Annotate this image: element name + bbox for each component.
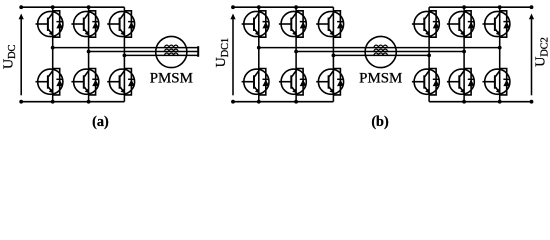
voltage arrow U_DC2 [529, 14, 534, 96]
IGBT T13 with freewheel diode [412, 11, 440, 37]
node: (b) left phase B tap [294, 50, 298, 54]
node: (a) leg1 top junction [51, 5, 55, 9]
node: (b) left phase C tap [332, 54, 336, 58]
node: (b) right leg3 top junction [498, 5, 502, 9]
IGBT T9 with freewheel diode [279, 11, 307, 37]
node: (a) phase C tap [123, 54, 127, 58]
wire: (b) right leg 3 vertical [499, 7, 501, 102]
node: (b) left leg1 bottom junction [257, 100, 261, 104]
node: (b) left phase A tap [257, 46, 261, 50]
IGBT T16 with freewheel diode [447, 69, 475, 95]
wire: (a) negative DC bus [21, 101, 124, 103]
IGBT T14 with freewheel diode [412, 69, 440, 95]
wire: (b) left leg 2 vertical [295, 7, 297, 102]
voltage arrow U_DC [19, 14, 24, 96]
node: (a) leg2 bottom junction [87, 100, 91, 104]
wire: (a) phase A [53, 47, 199, 49]
wire: (b) phase B [296, 51, 464, 53]
wire: (b) left leg 1 vertical [258, 7, 260, 102]
node: (b) right phase B tap [462, 50, 466, 54]
IGBT T12 with freewheel diode [316, 69, 344, 95]
IGBT T18 with freewheel diode [483, 69, 511, 95]
wire: (b) phase C [333, 54, 429, 56]
IGBT T3 with freewheel diode [71, 11, 99, 37]
IGBT T15 with freewheel diode [447, 11, 475, 37]
wire: (a) leg 1 vertical [52, 7, 54, 102]
node: (b) left leg2 bottom junction [294, 100, 298, 104]
node: (b) left leg2 top junction [294, 5, 298, 9]
node: (b) DC1- terminal [231, 100, 235, 104]
node: (a) star point bar [197, 46, 199, 57]
node: (b) right leg2 bottom junction [462, 100, 466, 104]
wire: (b) right negative DC bus [429, 101, 531, 103]
IGBT T8 with freewheel diode [242, 69, 270, 95]
node: (a) leg2 top junction [87, 5, 91, 9]
IGBT T5 with freewheel diode [107, 11, 135, 37]
node: (b) right phase C tap [427, 54, 431, 58]
wire: (b) left negative DC bus [233, 101, 333, 103]
PMSM motor M2 (stator windings) [365, 36, 396, 67]
node: (a) phase B tap [87, 50, 91, 54]
PMSM motor M1 (stator windings) [156, 36, 187, 67]
IGBT T6 with freewheel diode [107, 69, 135, 95]
node: (b) DC2+ terminal [530, 5, 534, 9]
wire: (b) right positive DC bus [429, 6, 531, 8]
IGBT T17 with freewheel diode [483, 11, 511, 37]
IGBT T1 with freewheel diode [36, 11, 64, 37]
wire: (a) phase B [89, 51, 199, 53]
wire: (b) right leg 2 vertical [463, 7, 465, 102]
node: (b) right leg3 bottom junction [498, 100, 502, 104]
node: (a) DC- terminal [19, 100, 23, 104]
wire: (b) right leg 1 vertical [428, 7, 430, 102]
IGBT T10 with freewheel diode [279, 69, 307, 95]
node: (b) right phase A tap [498, 46, 502, 50]
svg-text:(a): (a) [92, 114, 109, 130]
svg-text:(b): (b) [371, 114, 389, 130]
wire: (b) left leg 3 vertical [332, 7, 334, 102]
wire: (a) leg 3 vertical [123, 7, 125, 102]
node: (b) DC1+ terminal [231, 5, 235, 9]
svg-text:PMSM: PMSM [359, 71, 402, 87]
node: (b) right leg2 top junction [462, 5, 466, 9]
node: (b) DC2- terminal [530, 100, 534, 104]
wire: (b) left positive DC bus [233, 6, 333, 8]
wire: (a) positive DC bus [21, 6, 124, 8]
wire: (b) phase A [259, 47, 500, 49]
svg-text:PMSM: PMSM [150, 71, 193, 87]
IGBT T7 with freewheel diode [242, 11, 270, 37]
wire: (a) phase C [124, 54, 198, 56]
voltage arrow U_DC1 [230, 14, 235, 96]
wire: (a) leg 2 vertical [88, 7, 90, 102]
node: (a) leg1 bottom junction [51, 100, 55, 104]
IGBT T11 with freewheel diode [316, 11, 344, 37]
IGBT T2 with freewheel diode [36, 69, 64, 95]
IGBT T4 with freewheel diode [71, 69, 99, 95]
node: (a) DC+ terminal [19, 5, 23, 9]
node: (b) left leg1 top junction [257, 5, 261, 9]
node: (a) phase A tap [51, 46, 55, 50]
